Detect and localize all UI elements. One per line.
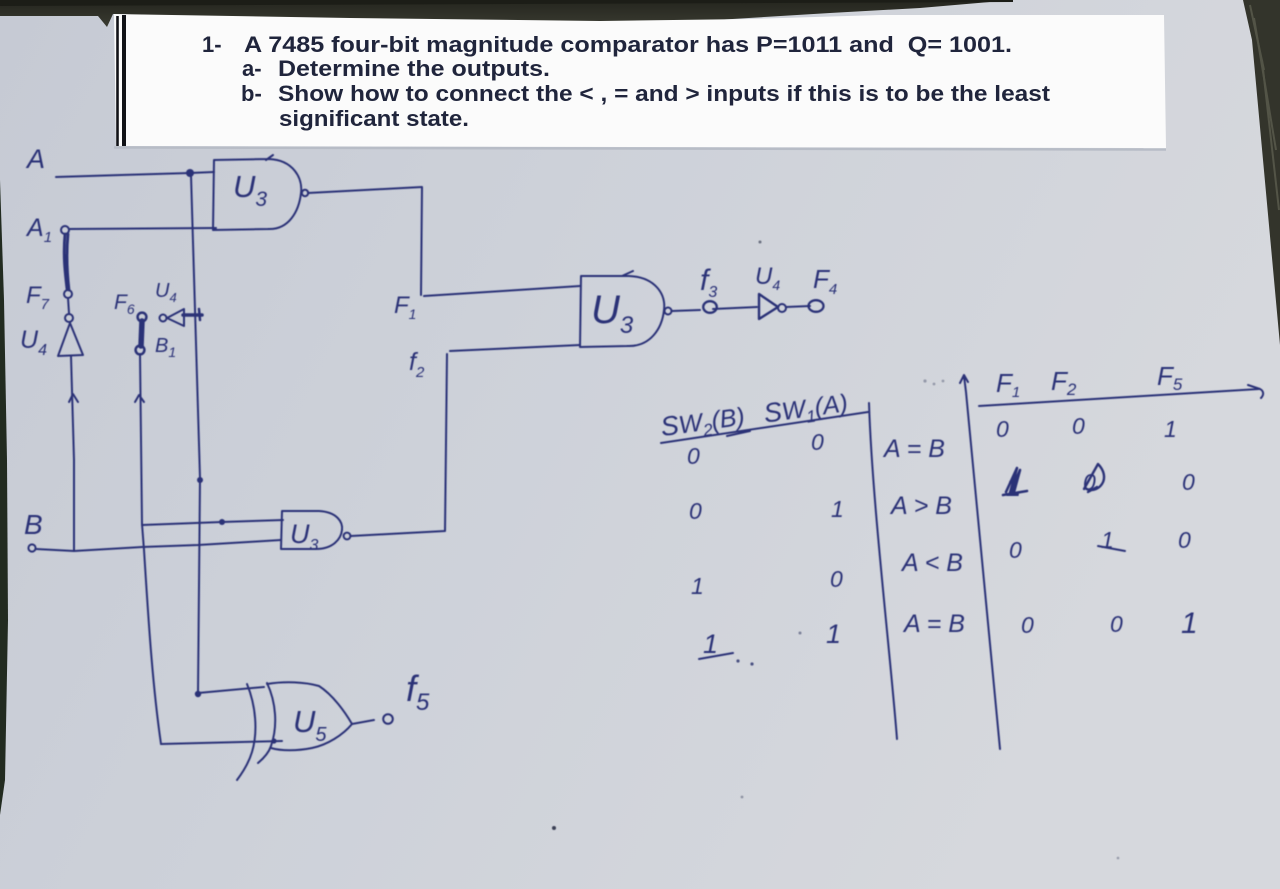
svg-text:A = B: A = B <box>902 610 965 638</box>
svg-text:0: 0 <box>689 498 702 524</box>
dark asphalt top-right triangle <box>1243 0 1280 345</box>
svg-text:1: 1 <box>703 629 718 659</box>
wire F3 to U4c <box>713 307 757 309</box>
node B1 circle <box>136 346 145 355</box>
node B terminal circle <box>28 544 35 551</box>
svg-text:Show how to connect the < , =: Show how to connect the < , = and > inpu… <box>278 81 1051 106</box>
wire U4c to F4 <box>786 306 810 307</box>
wire F6 to B1 thick stroke <box>141 321 142 346</box>
svg-text:A = B: A = B <box>882 435 945 463</box>
printed problem text <box>202 32 1051 131</box>
svg-text:A > B: A > B <box>889 492 952 520</box>
faint dot near SW1 row4 <box>799 632 802 635</box>
faint speck 3 <box>741 796 744 799</box>
NAND gate U3 #2 body <box>580 271 664 347</box>
table values SW1 column <box>811 429 844 649</box>
wire B1 tap to U3c top input <box>142 520 283 525</box>
wire A1 to U3a bottom input <box>69 228 216 229</box>
svg-text:0: 0 <box>996 416 1009 442</box>
svg-text:A: A <box>25 144 45 174</box>
wire B to U3c bottom input <box>36 540 281 551</box>
arrow tick on U4a input wire <box>69 394 78 402</box>
scribble over F1 row2 value <box>1003 468 1027 495</box>
wire long vertical from A junction down to U5 <box>191 175 200 693</box>
svg-text:0: 0 <box>1009 537 1022 563</box>
junction dot on node A wire <box>186 169 194 177</box>
ink speck 2 <box>759 241 762 244</box>
dark asphalt top band <box>0 0 1013 27</box>
printed sheet margin double line <box>118 15 125 146</box>
arrow tick on B1 wire <box>135 395 144 402</box>
faint speck 4 <box>1117 857 1120 860</box>
node F7 circle <box>64 290 72 298</box>
node F4 circle <box>809 300 824 312</box>
wire U3c output right and up to f2 <box>351 354 447 536</box>
wire B1 down to U5 lower input <box>140 354 161 744</box>
node F6 circle <box>138 313 147 322</box>
svg-text:A 7485 four-bit magnitude comp: A 7485 four-bit magnitude comparator has… <box>244 32 1012 57</box>
shadow under printed sheet <box>114 148 1166 150</box>
truth table column divider 1 <box>869 403 897 739</box>
dark sliver along left edge <box>0 180 8 815</box>
wire B1 branch to U5 bottom input <box>161 741 282 744</box>
svg-text:significant state.: significant state. <box>279 106 469 131</box>
table values F2 column <box>1072 413 1123 637</box>
underline below SW2 row4 value <box>699 653 733 659</box>
white printed sheet <box>114 14 1166 148</box>
table values F5 column <box>1164 416 1198 640</box>
dots below SW2 row4 <box>736 659 739 662</box>
svg-text:a-: a- <box>242 56 262 81</box>
svg-text:1: 1 <box>826 619 841 649</box>
NAND gate U3 #1 body <box>213 155 301 230</box>
wire f2 to U3b bottom input <box>450 345 580 351</box>
wire U3b output to F3 <box>672 310 700 311</box>
svg-text:B: B <box>24 509 43 540</box>
XOR gate U5 body <box>267 682 352 750</box>
inverter U4b triangle <box>167 309 184 326</box>
svg-text:0: 0 <box>1182 469 1195 495</box>
wire A1 down double stroke <box>64 234 69 290</box>
NAND gate U3 #3 output bubble <box>344 533 351 540</box>
wire U4b to long vertical <box>183 313 202 317</box>
wire long vertical corner to U5 top input <box>198 687 264 693</box>
NAND gate U3 #3 body <box>281 511 342 549</box>
node F5 output bubble <box>383 714 393 724</box>
inverter U4c output bubble <box>778 304 786 312</box>
node A1 terminal circle <box>61 226 69 234</box>
ink speck <box>552 826 556 830</box>
wire F1 to U3b top input <box>424 286 580 296</box>
truth table SW header <box>659 386 850 447</box>
inverter U4a triangle <box>58 323 83 356</box>
inverter U4c triangle <box>759 294 778 319</box>
svg-text:0: 0 <box>1072 413 1085 439</box>
truth table SW header underline <box>661 412 868 443</box>
XOR gate U5 input arcs <box>237 683 275 780</box>
svg-text:0: 0 <box>1021 612 1034 638</box>
wire U4a input down to B wire <box>71 356 74 551</box>
wire U5 output <box>352 720 374 724</box>
junction dot mid vertical <box>197 477 203 483</box>
svg-text:0: 0 <box>830 566 843 592</box>
svg-text:1: 1 <box>691 573 704 599</box>
NAND gate U3 #2 output bubble <box>665 308 672 315</box>
svg-text:Determine the outputs.: Determine the outputs. <box>278 56 550 81</box>
wire F7 to U4a bubble <box>68 298 69 313</box>
wire A to U3a top input <box>56 172 214 177</box>
NAND gate U3 #1 output bubble <box>302 190 308 196</box>
pencil dots near divider <box>923 379 944 385</box>
truth table header line with arrow <box>979 385 1263 406</box>
svg-text:0: 0 <box>687 443 700 469</box>
node F3 circle <box>703 301 717 313</box>
svg-text:1-: 1- <box>202 32 222 57</box>
INK <box>20 144 1263 859</box>
svg-text:1: 1 <box>831 496 844 522</box>
svg-text:0: 0 <box>1178 527 1191 553</box>
svg-text:A < B: A < B <box>900 549 963 577</box>
svg-text:0: 0 <box>1110 611 1123 637</box>
inverter U4a output bubble <box>65 314 73 322</box>
table values SW2 column <box>687 443 718 659</box>
inverter U4b bubble <box>160 315 167 322</box>
wire U3a output over and down to F1 <box>308 187 422 295</box>
table values F1 column <box>996 416 1034 638</box>
svg-text:b-: b- <box>241 81 262 106</box>
truth table column divider 2 with arrow <box>960 375 1000 749</box>
scribble over F2 row2 value <box>1084 464 1104 492</box>
junction dot on U3c top input wire <box>219 519 225 525</box>
svg-text:1: 1 <box>1181 607 1198 640</box>
svg-text:0: 0 <box>811 429 824 455</box>
svg-text:1: 1 <box>1164 416 1177 442</box>
junction dot at U5 top input corner <box>195 691 201 697</box>
